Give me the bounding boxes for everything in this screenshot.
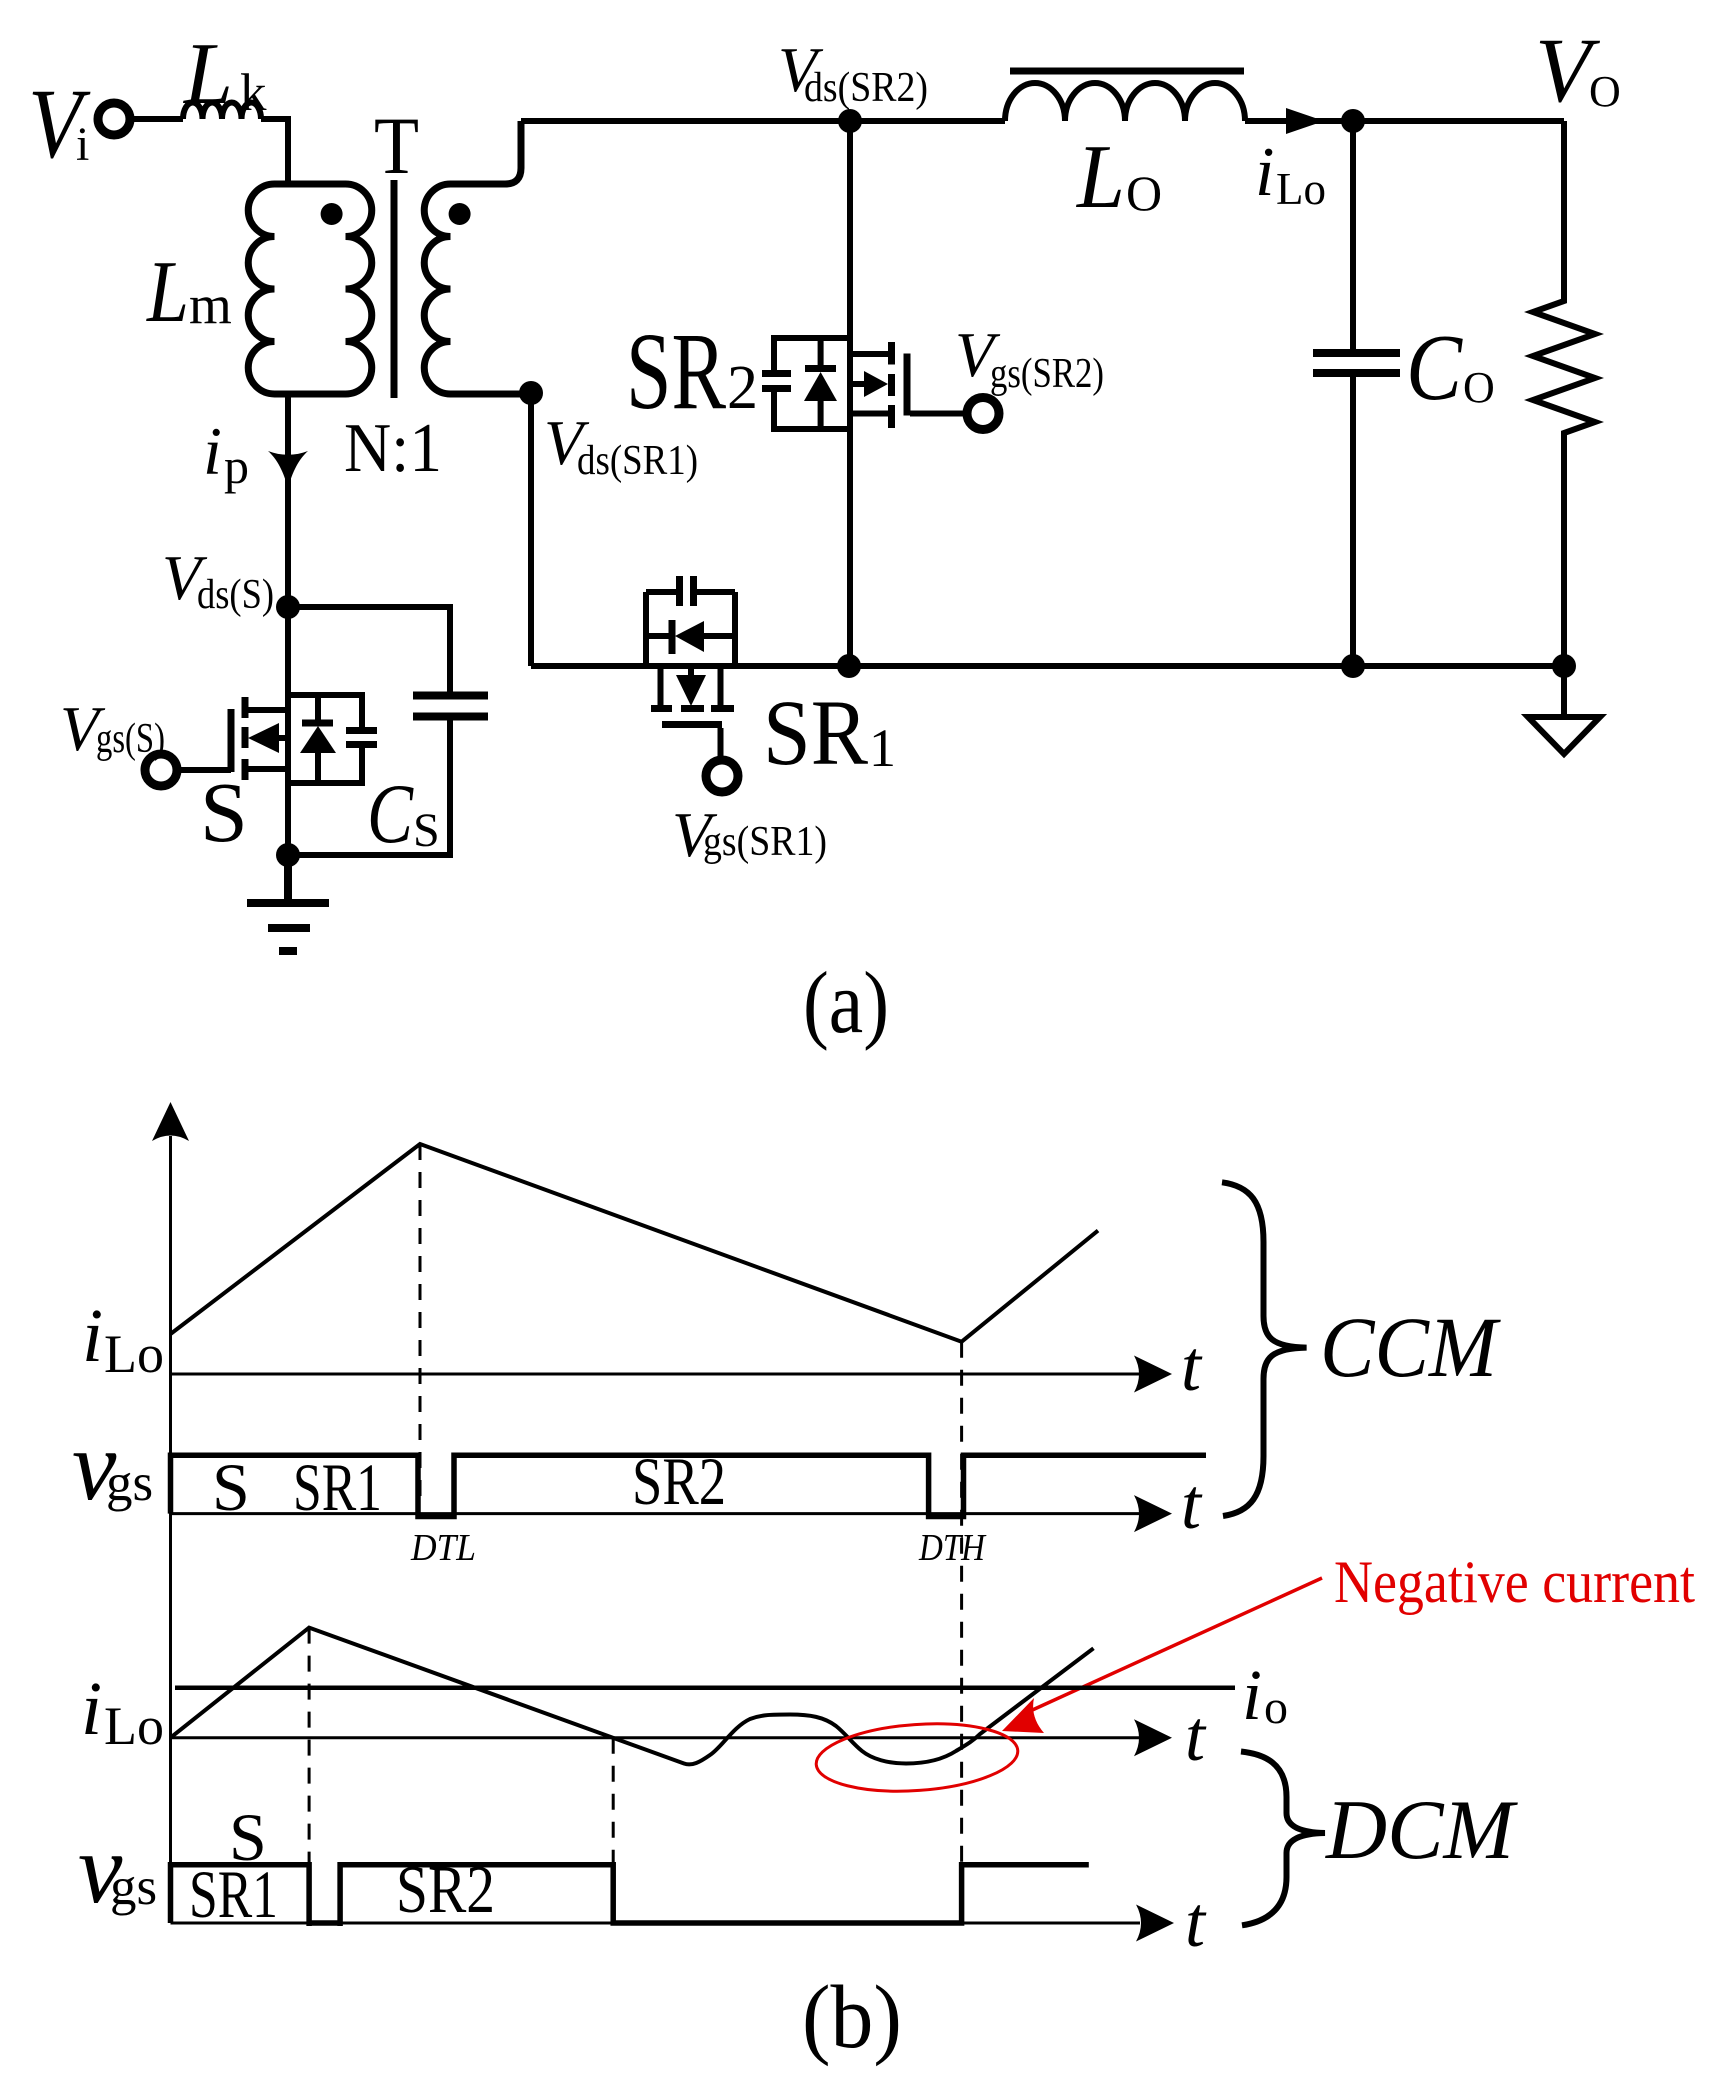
resistor (load) (1533, 121, 1595, 666)
svg-text:i: i (81, 1667, 102, 1751)
red arrow (1002, 1578, 1322, 1733)
input terminal Vi (28, 68, 130, 179)
svg-text:ds(SR2): ds(SR2) (804, 65, 928, 111)
svg-text:ds(S): ds(S) (197, 572, 274, 618)
svg-text:(b): (b) (802, 1968, 902, 2067)
dashed line (DCM peak) (308, 1628, 311, 1923)
svg-text:T: T (374, 100, 419, 191)
svg-text:2: 2 (727, 354, 758, 422)
wire (130, 116, 183, 122)
brace DCM (1241, 1752, 1518, 1926)
waveform iLo DCM (171, 1628, 1094, 1765)
svg-text:t: t (1185, 1882, 1207, 1962)
svg-text:gs(SR2): gs(SR2) (990, 351, 1104, 397)
MOSFET SR1 with body diode (646, 576, 896, 785)
axis vertical (waveforms) (152, 1102, 189, 1923)
svg-text:ds(SR1): ds(SR1) (577, 438, 698, 484)
svg-text:Negative current: Negative current (1334, 1549, 1695, 1615)
svg-text:N:1: N:1 (344, 410, 442, 487)
svg-text:i: i (203, 413, 222, 489)
terminal Vgs(S) (60, 693, 177, 786)
svg-text:C: C (1406, 316, 1463, 420)
svg-text:gs: gs (106, 1454, 153, 1512)
svg-text:Lo: Lo (1276, 164, 1326, 214)
label VO (1535, 19, 1621, 121)
axis t (CCM vgs) (171, 1464, 1204, 1544)
label vgs (CCM) (72, 1410, 153, 1521)
axis t (CCM iLo) (171, 1326, 1204, 1406)
svg-text:gs(S): gs(S) (96, 716, 165, 762)
ground (output) (1528, 666, 1600, 754)
label iLo (CCM) (82, 1294, 164, 1384)
svg-text:i: i (1242, 1655, 1262, 1735)
inductor Lk (182, 26, 267, 123)
svg-text:L: L (145, 244, 189, 341)
dashed line (DCM SR2 end) (612, 1738, 615, 1923)
wire (1353, 118, 1564, 124)
waveform vgs CCM (171, 1455, 1207, 1516)
svg-text:o: o (1264, 1681, 1288, 1734)
node (SR junction) (837, 654, 861, 678)
svg-text:DCM: DCM (1325, 1783, 1518, 1877)
svg-text:DTH: DTH (918, 1527, 987, 1569)
svg-text:t: t (1181, 1464, 1203, 1544)
svg-text:DTL: DTL (410, 1527, 476, 1569)
svg-text:SR2: SR2 (632, 1443, 726, 1519)
node (CO bottom) (1341, 654, 1365, 678)
svg-text:t: t (1185, 1696, 1207, 1776)
label vgs (DCM) (78, 1813, 157, 1924)
capacitor CO (1313, 121, 1495, 666)
brace CCM (1222, 1182, 1501, 1516)
svg-text:CCM: CCM (1320, 1299, 1501, 1395)
capacitor CS (288, 607, 488, 861)
inductor LO (1005, 71, 1245, 227)
svg-text:SR: SR (626, 310, 726, 432)
waveform vgs DCM (171, 1865, 1089, 1926)
svg-text:i: i (82, 1294, 103, 1378)
wire bottom rail (531, 663, 1564, 669)
svg-text:i: i (1255, 134, 1274, 211)
svg-text:SR1: SR1 (189, 1856, 278, 1932)
svg-text:SR: SR (763, 682, 868, 785)
MOSFET SR2 with body diode (626, 121, 963, 666)
terminal Vgs(SR2) (955, 319, 1104, 430)
node Vds(SR2) (778, 34, 928, 133)
svg-text:Lo: Lo (104, 1324, 164, 1384)
terminal Vgs(SR1) (672, 760, 827, 870)
node (load bottom) (1552, 654, 1576, 678)
svg-text:gs(SR1): gs(SR1) (703, 819, 827, 865)
waveform iLo CCM (171, 1144, 1099, 1342)
svg-text:1: 1 (869, 718, 896, 778)
axis t (DCM iLo) (171, 1696, 1208, 1776)
node Vds(S) (162, 542, 300, 619)
svg-text:p: p (224, 438, 249, 494)
wire (261, 119, 288, 184)
svg-text:L: L (1075, 126, 1125, 227)
line io (175, 1655, 1288, 1735)
label iLo (DCM) (81, 1667, 164, 1756)
red ellipse (negative current) (814, 1718, 1020, 1798)
wire top rail (521, 118, 1005, 124)
transformer core (391, 180, 398, 398)
node (S source) (276, 843, 300, 867)
svg-text:k: k (240, 64, 267, 122)
dashed line DTL (CCM) (419, 1144, 422, 1508)
axis t (DCM vgs) (171, 1882, 1208, 1962)
transformer secondary winding (424, 121, 531, 394)
wire + current arrow iLo (1245, 108, 1353, 214)
svg-text:O: O (1463, 363, 1495, 412)
transformer T primary winding Lm (145, 184, 371, 394)
svg-text:S: S (200, 764, 248, 860)
current arrow ip (203, 394, 308, 607)
svg-text:O: O (1589, 67, 1621, 116)
svg-text:t: t (1181, 1326, 1203, 1406)
ground (primary) (247, 855, 329, 951)
node Vds(SR1) (519, 381, 698, 666)
svg-text:gs: gs (110, 1858, 157, 1916)
svg-text:S: S (413, 804, 440, 857)
node (output top) (1341, 109, 1365, 133)
svg-text:L: L (182, 26, 233, 123)
dashed line DTH (960, 1342, 963, 1923)
svg-text:(a): (a) (803, 955, 889, 1052)
svg-text:Lo: Lo (104, 1696, 164, 1756)
MOSFET S with body diode (177, 607, 377, 860)
svg-text:C: C (367, 767, 414, 861)
svg-text:SR2: SR2 (396, 1851, 495, 1927)
svg-text:m: m (189, 274, 232, 335)
svg-text:i: i (76, 118, 89, 171)
svg-text:O: O (1126, 165, 1162, 221)
